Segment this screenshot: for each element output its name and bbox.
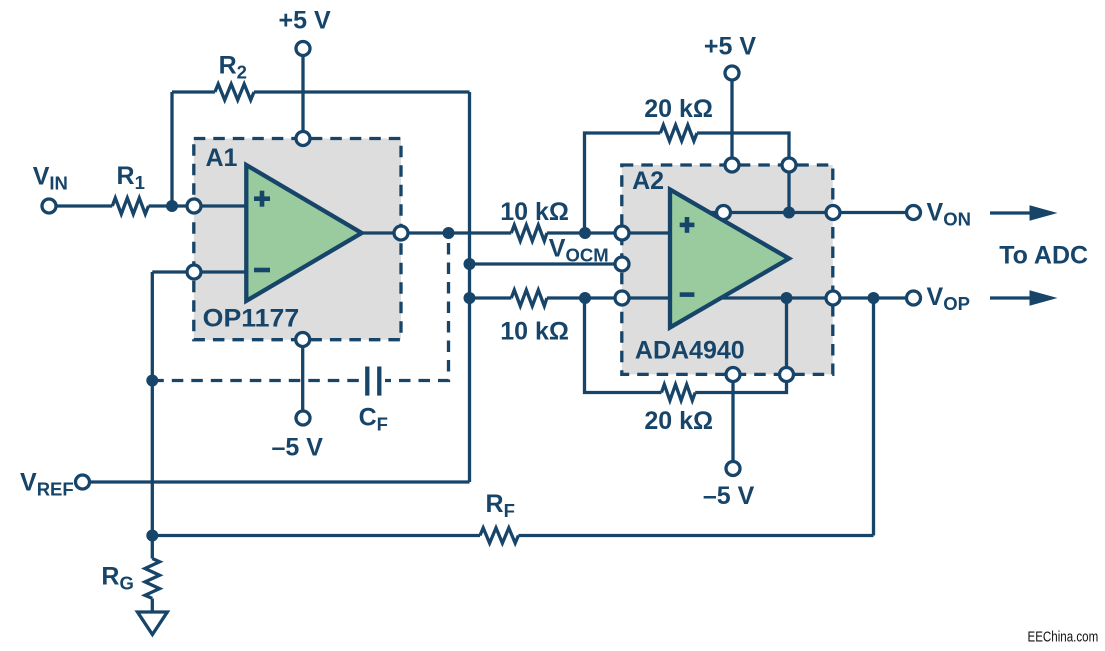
svg-text:10 kΩ: 10 kΩ	[500, 198, 569, 226]
svg-text:20 kΩ: 20 kΩ	[644, 407, 713, 435]
svg-text:To ADC: To ADC	[999, 242, 1088, 270]
svg-text:OP1177: OP1177	[203, 305, 299, 333]
svg-text:ADA4940: ADA4940	[635, 337, 745, 365]
svg-text:A1: A1	[206, 144, 238, 172]
svg-text:A2: A2	[632, 167, 664, 195]
svg-text:10 kΩ: 10 kΩ	[500, 318, 569, 346]
svg-text:+5 V: +5 V	[279, 7, 331, 35]
svg-text:+5 V: +5 V	[704, 33, 756, 61]
svg-text:20 kΩ: 20 kΩ	[644, 95, 713, 123]
svg-text:EEChina.com: EEChina.com	[1028, 630, 1099, 646]
svg-text:–5 V: –5 V	[272, 434, 324, 462]
svg-text:–5 V: –5 V	[703, 482, 755, 510]
